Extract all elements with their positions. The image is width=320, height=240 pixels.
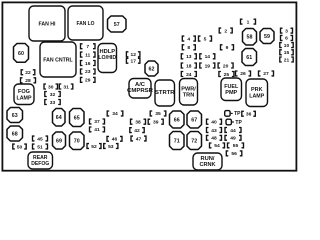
svg-text:4: 4 [187, 36, 190, 42]
fuse position [9] [221, 45, 234, 51]
fuse position [15] [280, 50, 293, 56]
fuse position [38] [131, 119, 146, 125]
svg-text:63: 63 [12, 113, 18, 119]
svg-text:9: 9 [226, 45, 229, 51]
fuse position [7] [81, 44, 96, 50]
relay FAN LO [68, 6, 103, 40]
svg-text:22: 22 [25, 70, 31, 76]
svg-text:67: 67 [191, 117, 197, 123]
relay PWR/TRN [180, 79, 198, 106]
fuse position [37] [90, 119, 105, 125]
fuse 60 [14, 44, 29, 63]
svg-text:42: 42 [134, 128, 140, 134]
svg-text:53: 53 [108, 144, 114, 150]
svg-text:CMPRSR: CMPRSR [127, 88, 153, 94]
fuse position [4] [182, 36, 195, 42]
fuse position [16] [81, 61, 96, 67]
fuse 59 [260, 29, 274, 44]
svg-text:29: 29 [85, 78, 91, 84]
svg-text:39: 39 [153, 120, 159, 126]
svg-text:8: 8 [187, 45, 190, 51]
relay FAN HI [29, 6, 65, 41]
svg-text:25: 25 [224, 72, 230, 78]
fuse position [40] [207, 119, 222, 125]
svg-text:68: 68 [12, 131, 18, 137]
svg-text:46: 46 [112, 137, 118, 143]
fuse 66 [170, 111, 185, 128]
svg-text:30: 30 [48, 84, 54, 90]
relay STRTR [155, 80, 175, 106]
svg-text:19: 19 [205, 63, 211, 69]
fuse position [11] [81, 52, 96, 58]
svg-text:56: 56 [231, 151, 237, 157]
svg-text:HDLP: HDLP [100, 49, 116, 55]
fuse 68 [7, 126, 23, 141]
svg-text:62: 62 [149, 66, 155, 72]
svg-text:LAMP: LAMP [17, 95, 33, 101]
fuse position [48] [207, 135, 222, 141]
svg-text:TP: TP [235, 120, 242, 126]
fuse 72 [187, 132, 202, 150]
svg-text:71: 71 [174, 138, 180, 144]
fuse 61 [242, 49, 257, 66]
fuse position [45] [33, 136, 48, 142]
svg-text:72: 72 [191, 138, 197, 144]
fuse position [43] [207, 128, 222, 134]
fuse position [35] [150, 111, 166, 117]
fuse position [10] [280, 43, 293, 49]
fuse 57 [108, 16, 127, 32]
fuse position [30] [44, 84, 58, 90]
svg-text:36: 36 [246, 112, 252, 118]
svg-text:23: 23 [85, 69, 91, 75]
svg-text:FAN HI: FAN HI [39, 21, 56, 27]
svg-text:55: 55 [233, 143, 239, 149]
svg-text:45: 45 [37, 136, 43, 142]
fuse position [26] [236, 71, 251, 77]
svg-text:38: 38 [135, 120, 141, 126]
svg-text:PMP: PMP [225, 90, 238, 96]
svg-text:13: 13 [186, 54, 192, 60]
svg-text:66: 66 [174, 117, 180, 123]
svg-text:28: 28 [25, 78, 31, 84]
svg-text:48: 48 [211, 136, 217, 142]
relay REAR DEFOG [28, 152, 53, 169]
outer border of fuse block [2, 2, 296, 170]
fuse position [52] [87, 144, 101, 150]
fuse position [24] [181, 72, 196, 78]
fuse position [55] [228, 143, 244, 149]
fuse position [13] [181, 54, 196, 60]
svg-text:27: 27 [263, 71, 269, 77]
svg-text:47: 47 [136, 136, 142, 142]
svg-text:70: 70 [74, 139, 80, 145]
svg-text:51: 51 [37, 144, 43, 150]
fuse 58 [243, 29, 257, 46]
svg-text:RUN/: RUN/ [201, 156, 216, 162]
relay PRK LAMP [246, 79, 268, 107]
fuse position [1] [241, 19, 256, 25]
svg-text:40: 40 [211, 120, 217, 126]
svg-text:26: 26 [240, 71, 246, 77]
svg-text:3: 3 [285, 29, 288, 35]
svg-text:52: 52 [91, 144, 97, 150]
svg-text:FOG: FOG [18, 89, 30, 95]
fuse 69 [53, 132, 66, 149]
svg-text:2: 2 [224, 28, 227, 34]
fuse position [47] [131, 136, 146, 142]
fuse position [42] [130, 128, 144, 134]
fuse position [56] [226, 151, 242, 157]
svg-text:20: 20 [223, 63, 229, 69]
fuse position [54] [210, 143, 225, 149]
svg-text:5: 5 [204, 36, 207, 42]
svg-text:16: 16 [85, 61, 91, 67]
svg-text:11: 11 [85, 52, 90, 58]
fuse position [33] [45, 100, 60, 106]
fuse 71 [170, 132, 185, 150]
fuse position [44] [225, 128, 241, 134]
fuse position [28] [21, 78, 36, 84]
fuse position [41] [90, 127, 105, 133]
svg-text:17: 17 [130, 59, 136, 65]
fuse position [12] [126, 52, 139, 58]
svg-text:69: 69 [56, 138, 62, 144]
relay HDLP LO/HID [98, 44, 117, 73]
svg-text:TP: TP [234, 111, 241, 117]
fuse position [5] [199, 36, 212, 42]
svg-text:58: 58 [247, 35, 253, 41]
svg-text:43: 43 [211, 128, 217, 134]
fuse 70 [70, 132, 85, 150]
svg-text:12: 12 [130, 52, 136, 58]
fuse position [46] [107, 136, 122, 142]
svg-text:57: 57 [114, 22, 120, 28]
relay FOG LAMP [14, 84, 34, 105]
svg-text:PRK: PRK [251, 87, 263, 93]
fuse position [14] [200, 54, 215, 60]
fuse position [25] [219, 72, 234, 78]
fuse position [34] [107, 111, 123, 117]
svg-text:60: 60 [18, 51, 24, 57]
svg-text:18: 18 [186, 63, 192, 69]
fuse position [27] [259, 71, 274, 77]
fuse position [18] [181, 63, 196, 69]
svg-text:6: 6 [285, 36, 288, 42]
svg-text:FAN CNTRL: FAN CNTRL [43, 57, 73, 63]
svg-text:DEFOG: DEFOG [31, 161, 49, 167]
fuse 62 [145, 61, 158, 76]
svg-text:41: 41 [94, 127, 100, 133]
fuse position [31] [59, 84, 73, 90]
fuse position [32] [45, 92, 60, 98]
svg-text:LAMP: LAMP [249, 93, 265, 99]
svg-text:LO/HID: LO/HID [98, 55, 116, 61]
svg-text:21: 21 [284, 57, 290, 63]
svg-text:31: 31 [63, 84, 69, 90]
fuse position [23] [81, 69, 96, 75]
svg-text:REAR: REAR [33, 155, 48, 161]
fuse position [50] [13, 144, 26, 150]
svg-text:44: 44 [230, 128, 236, 134]
fuse position [3] [281, 28, 293, 34]
svg-text:59: 59 [264, 34, 270, 40]
fuse position [36] [242, 111, 256, 117]
relay FUEL PMP [221, 78, 242, 101]
fuse 63 [7, 108, 23, 123]
svg-text:32: 32 [50, 92, 56, 98]
fuse 67 [187, 111, 202, 128]
svg-text:1: 1 [247, 20, 250, 26]
fuse position [8] [182, 45, 195, 51]
svg-text:CRNK: CRNK [200, 162, 216, 168]
svg-text:64: 64 [56, 115, 62, 121]
relay A/C CMPRSR [127, 79, 153, 99]
svg-text:STRTR: STRTR [155, 90, 175, 96]
svg-text:33: 33 [50, 100, 56, 106]
svg-text:14: 14 [205, 54, 211, 60]
svg-text:35: 35 [155, 111, 161, 117]
relay FAN CNTRL [40, 42, 76, 77]
svg-text:65: 65 [74, 115, 80, 121]
fuse 65 [70, 109, 85, 127]
stud TP [226, 119, 242, 126]
fuse position [53] [104, 144, 118, 150]
fuse position [20] [218, 63, 233, 69]
fuse 64 [53, 109, 66, 127]
stud TP [225, 111, 241, 118]
svg-text:54: 54 [214, 143, 220, 149]
svg-text:10: 10 [284, 43, 290, 49]
svg-text:34: 34 [112, 111, 118, 117]
svg-text:37: 37 [94, 119, 100, 125]
fuse position [22] [21, 70, 35, 76]
svg-text:24: 24 [186, 72, 192, 78]
fuse position [21] [280, 57, 293, 63]
svg-text:FAN LO: FAN LO [77, 21, 95, 27]
svg-text:15: 15 [284, 50, 290, 56]
svg-text:61: 61 [246, 55, 252, 61]
relay RUN/CRNK [193, 153, 222, 170]
fuse position [19] [200, 63, 215, 69]
fuse position [2] [219, 28, 232, 34]
svg-text:TRN: TRN [183, 92, 195, 98]
svg-text:7: 7 [86, 44, 89, 50]
fuse position [51] [33, 144, 48, 150]
svg-text:49: 49 [230, 136, 236, 142]
fuse position [6] [281, 35, 293, 41]
fuse position [39] [148, 119, 163, 125]
fuse position [49] [225, 135, 241, 141]
fuse position [17] [126, 58, 139, 64]
svg-text:50: 50 [17, 144, 23, 150]
fuse position [29] [81, 77, 96, 83]
